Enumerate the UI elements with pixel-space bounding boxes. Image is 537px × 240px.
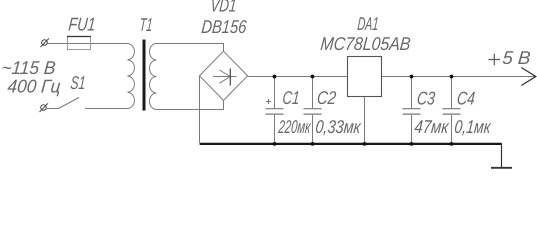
svg-text:C4: C4	[456, 88, 476, 109]
svg-text:C1: C1	[282, 87, 301, 108]
svg-text:0,33мк: 0,33мк	[315, 116, 363, 137]
svg-text:220мк: 220мк	[277, 116, 312, 137]
svg-text:400 Гц: 400 Гц	[7, 76, 62, 97]
svg-text:C3: C3	[416, 88, 436, 109]
svg-text:FU1: FU1	[68, 14, 97, 35]
svg-text:DB156: DB156	[201, 16, 248, 37]
svg-text:MC78L05AB: MC78L05AB	[320, 33, 412, 54]
svg-text:DA1: DA1	[357, 13, 380, 34]
svg-text:47мк: 47мк	[414, 116, 451, 137]
svg-text:S1: S1	[70, 72, 87, 93]
svg-text:Т1: Т1	[139, 14, 154, 35]
svg-text:VD1: VD1	[210, 0, 238, 15]
svg-text:5 В: 5 В	[502, 47, 532, 68]
svg-text:0,1мк: 0,1мк	[454, 116, 493, 137]
svg-text:C2: C2	[316, 87, 337, 108]
